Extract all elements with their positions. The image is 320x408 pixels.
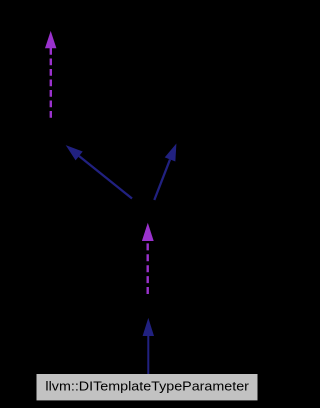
- node llvm::DITemplateTypeParameter (current class, grey box): [37, 374, 258, 400]
- svg-text:llvm::DITemplateTypeParameter: llvm::DITemplateTypeParameter: [45, 378, 249, 393]
- inheritance arrow (up-right, invisible node row 3 to row 2 right): [154, 144, 176, 201]
- template-relation dashed arrow (middle, invisible node row 4 to row 3): [142, 223, 154, 294]
- inheritance arrow (up-left, invisible node row 3 to row 2 left): [66, 145, 132, 198]
- template-relation dashed arrow (top, to invisible node row 1): [45, 31, 56, 118]
- inheritance arrow (bottom, from llvm::DITemplateTypeParameter to invisible node row 4): [143, 318, 154, 374]
